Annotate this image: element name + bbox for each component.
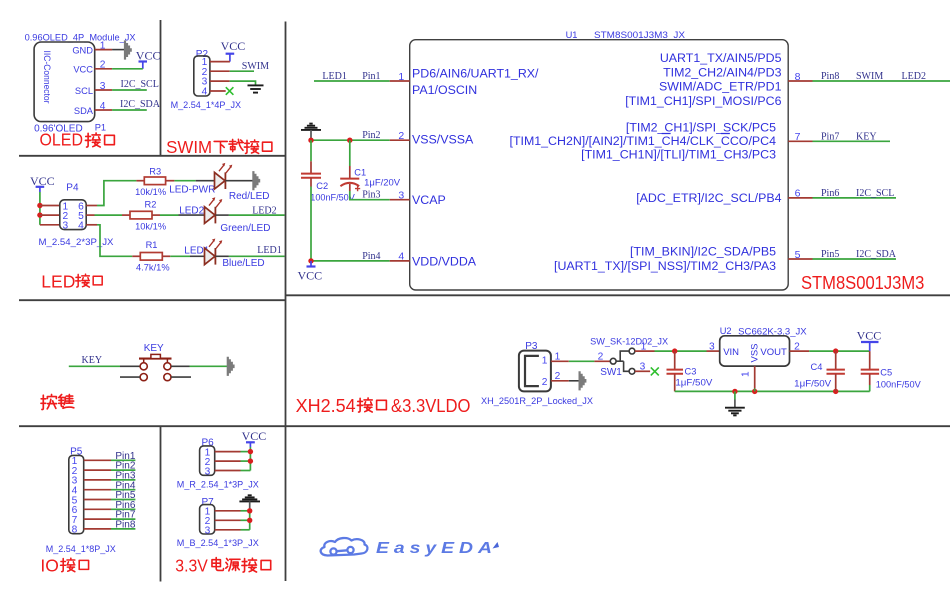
svg-text:Pin1: Pin1 [362,71,380,82]
U1 pin4 wire [311,260,390,262]
P1 pin 4 stub [95,109,112,111]
svg-text:Pin4: Pin4 [362,251,380,262]
svg-text:C4: C4 [811,362,823,372]
svg-text:5: 5 [795,249,801,261]
U1 pin7 stub [788,140,812,142]
svg-text:IO: IO [40,556,58,576]
ground stem below rail [734,391,736,399]
junction dot P4 pin2 [37,212,42,217]
junction dot rail gnd [732,389,737,394]
svg-text:3: 3 [709,342,715,353]
svg-text:3: 3 [62,221,68,232]
wire LED2 to border [229,214,285,216]
wire pin3 to ground [230,81,256,85]
svg-text:Pin8: Pin8 [115,520,135,531]
svg-text:8: 8 [72,525,78,536]
svg-text:STM8S001J3M3: STM8S001J3M3 [801,272,924,293]
svg-text:SWIM: SWIM [166,137,212,157]
wire P3 to SW1 [569,360,595,362]
svg-text:LED2: LED2 [902,71,926,82]
switch SW1 contacts [610,348,635,374]
LED Red/LED symbol [215,163,233,189]
svg-text:STM8S001J3M3_JX: STM8S001J3M3_JX [594,30,685,40]
svg-text:4: 4 [202,87,208,98]
svg-text:1μF/20V: 1μF/20V [364,177,401,187]
ground stem to pin2 wire [310,130,312,140]
svg-text:R1: R1 [146,240,158,250]
ground stem at P7 [249,501,251,510]
svg-text:VCC: VCC [857,329,882,343]
svg-text:I2C_SDA: I2C_SDA [856,249,897,260]
connector P2 body [194,56,210,96]
regulator U2 body [720,336,790,366]
wire KEY [69,365,120,367]
junction dot P7 pin1 [247,508,252,513]
svg-text:1: 1 [641,342,647,353]
capacitor C3 lower lead [674,374,676,392]
VCC bar at P6 [246,441,255,443]
section divider horizontal y=295 right [286,294,950,296]
LED Green/LED symbol [205,197,223,223]
svg-text:KEY: KEY [144,343,164,354]
P4 pin3 stub [40,224,60,226]
svg-text:U1: U1 [566,30,578,40]
svg-text:M_2.54_2*3P_JX: M_2.54_2*3P_JX [39,237,114,247]
P2 pin3 stub [210,80,230,82]
capacitor C1 branch lower [349,184,351,191]
svg-text:C3: C3 [685,367,697,377]
connector P1 body [34,42,95,122]
capacitor C3 upper lead [674,351,676,369]
junction dot C3 top [672,348,677,353]
svg-text:VCC: VCC [221,39,246,53]
svg-text:100nF/50V: 100nF/50V [310,193,355,203]
connector P3 body [519,351,551,392]
capacitor C5 [861,370,879,374]
P7 pin stubs [215,511,241,530]
capacitor C2 branch lower [310,178,312,187]
LED Blue/LED symbol [205,238,223,264]
P4 pin6 stub [86,205,97,207]
section divider vertical x=160 top [160,20,162,156]
section divider vertical x=160 bottom [160,426,162,581]
ground rail [675,390,870,392]
P1 pin 3 stub [95,89,112,91]
U1 pin4 stub [390,260,410,262]
wire pin6 up to R3 [97,181,136,206]
wire to LED2 label [160,214,179,216]
svg-text:SCL: SCL [75,86,93,96]
U1 pin2 stub [390,139,410,141]
capacitor C2 branch upper [310,140,312,161]
switch lower left stub [120,376,140,378]
earth ground at P2 pin3 [248,85,264,92]
svg-text:Pin2: Pin2 [362,130,380,141]
svg-text:2: 2 [542,377,548,388]
U1 pin7 wire [813,140,891,142]
svg-text:C5: C5 [880,368,892,378]
U1 pin6 stub [788,197,812,199]
ground arrow at P1 pin1 [124,40,132,59]
svg-text:10k/1%: 10k/1% [135,187,166,197]
section divider horizontal y=426 [19,425,950,427]
svg-text:SWIM: SWIM [242,61,269,72]
VCC stem at P6 [249,442,251,447]
svg-text:LED: LED [41,272,75,292]
svg-text:4.7k/1%: 4.7k/1% [136,263,170,273]
U1 pin2 wire [311,139,390,141]
R3 right lead [166,180,175,182]
P6 pin numbers [205,447,211,477]
resistor R3 [144,177,165,185]
P5 pin numbers 1-8 [72,456,78,536]
svg-text:M_2.54_1*8P_JX: M_2.54_1*8P_JX [46,544,116,554]
section divider horizontal y=156 [19,155,286,157]
wire to switch [120,365,140,367]
junction dot C4 top [833,348,838,353]
svg-text:VDD/VDDA: VDD/VDDA [412,254,477,268]
C1 plus sign [355,186,360,191]
P7 vertical rail [249,511,251,530]
switch KEY button bar [139,354,172,362]
wire switch to ground [171,365,190,367]
svg-text:VIN: VIN [723,347,739,358]
resistor R1 [140,253,162,261]
svg-text:KEY: KEY [82,355,103,366]
svg-text:M_B_2.54_1*3P_JX: M_B_2.54_1*3P_JX [177,538,259,548]
svg-text:R2: R2 [145,200,157,210]
svg-text:100nF/50V: 100nF/50V [876,380,922,390]
U2 VSS stub [754,366,756,388]
switch lower right stub [171,376,191,378]
svg-text:UART1_TX/AIN5/PD5: UART1_TX/AIN5/PD5 [660,51,782,65]
svg-text:1: 1 [398,71,404,83]
wire to Blue LED [190,255,205,257]
svg-text:VCC: VCC [73,65,93,75]
svg-text:1: 1 [741,371,752,377]
capacitor C4 upper lead [835,351,837,369]
svg-text:SDA: SDA [74,106,94,116]
VCC bar symbol at P1 [139,60,148,62]
P4 pin1 stub [40,205,60,207]
svg-text:VSS: VSS [750,343,761,362]
wire I2C_SDA [112,109,147,111]
net labels Pin1-Pin8 [115,451,135,531]
svg-text:[UART1_TX]/[SPI_NSS]/TIM2_CH3/: [UART1_TX]/[SPI_NSS]/TIM2_CH3/PA3 [554,259,776,273]
P5 pin stubs [84,460,111,529]
VCC bar at LDO out [861,341,879,343]
SW1 pin1 stub [635,350,655,352]
wire VOUT to VCC [809,350,870,352]
EasyEDA logo cloud [321,538,368,556]
svg-text:IIC-Connector: IIC-Connector [42,51,52,104]
svg-text:OLED: OLED [40,129,84,149]
svg-text:4: 4 [398,251,404,263]
P2 pin4 stub [210,90,226,92]
svg-text:2: 2 [555,371,561,382]
svg-text:Pin8: Pin8 [821,71,839,82]
svg-text:6: 6 [795,188,801,200]
U2 VOUT stub [790,350,810,352]
earth ground below rail [725,408,745,416]
section divider vertical x=285 [285,22,287,582]
SW1 pin3 stub [635,370,650,372]
svg-text:Green/LED: Green/LED [220,223,270,234]
svg-text:VCC: VCC [242,429,267,443]
svg-text:&3.3VLDO: &3.3VLDO [391,396,471,416]
junction dot rail VSS [752,389,757,394]
svg-text:SWIM: SWIM [856,71,883,82]
wire LED1 to border [229,255,285,257]
svg-text:SW_SK-12D02_JX: SW_SK-12D02_JX [590,336,668,346]
svg-text:I2C_SDA: I2C_SDA [120,99,161,110]
P1 pin 1 stub [95,49,112,51]
svg-text:P4: P4 [66,183,79,194]
IC U1 body [410,40,789,290]
connector P4 body [60,200,86,230]
svg-text:TIM2_CH2/AIN4/PD3: TIM2_CH2/AIN4/PD3 [663,66,782,80]
capacitor C5 lower lead [869,374,871,385]
svg-text:[TIM_BKIN]/I2C_SDA/PB5: [TIM_BKIN]/I2C_SDA/PB5 [630,245,776,259]
U1 pin3 stub [390,199,410,201]
capacitor C4 lower lead [835,374,837,392]
capacitor C2 [301,174,321,178]
svg-text:[TIM2_CH1]/SPI_SCK/PC5: [TIM2_CH1]/SPI_SCK/PC5 [626,120,776,134]
no-connect X at P2 pin4 [226,87,234,95]
capacitor C1 branch upper [349,140,351,166]
wire to LED1sym [196,180,215,182]
section label AnJian [41,394,57,409]
svg-text:1μF/50V: 1μF/50V [675,377,713,387]
connector P7 body [200,505,215,534]
svg-text:KEY: KEY [856,131,877,142]
wire pin1 to gnd [112,49,124,51]
svg-text:XH_2501R_2P_Locked_JX: XH_2501R_2P_Locked_JX [481,396,593,406]
ground arrow at Red/LED [252,171,260,190]
U1 pin1 stub [390,80,410,82]
junction dot pin2/C1 [347,138,352,143]
svg-text:[ADC_ETR]/I2C_SCL/PB4: [ADC_ETR]/I2C_SCL/PB4 [636,191,781,205]
P4 pin5 stub [86,214,94,216]
junction dot P6 pin1 [248,449,253,454]
section divider horizontal y=300 left [19,299,286,301]
svg-text:VCAP: VCAP [412,193,446,207]
svg-text:P1: P1 [95,123,106,133]
wire pin2 to VCC [112,68,143,70]
svg-text:VSS/VSSA: VSS/VSSA [412,133,474,147]
capacitor C5 upper lead [869,351,871,369]
junction dot P6 pin2 [248,458,253,463]
svg-text:3: 3 [205,525,211,536]
P1 pin 2 stub [95,68,112,70]
wire I2C_SCL [112,89,147,91]
U1 pin8 stub [788,80,812,82]
svg-text:LED1: LED1 [257,245,281,256]
svg-text:[TIM1_CH2N]/[AIN2]/TIM1_CH4/CL: [TIM1_CH2N]/[AIN2]/TIM1_CH4/CLK_CCO/PC4 [510,134,777,148]
svg-text:3: 3 [398,190,404,202]
svg-text:LED2: LED2 [252,205,276,216]
svg-text:M_R_2.54_1*3P_JX: M_R_2.54_1*3P_JX [177,480,259,490]
svg-text:VCC: VCC [298,269,323,283]
no-connect X at SW1 pin3 [651,367,659,375]
svg-text:SC662K-3.3_JX: SC662K-3.3_JX [738,326,807,336]
VCC stem below pin4 [310,261,312,267]
svg-text:3.3V: 3.3V [175,556,208,576]
wire SW1 to VIN [655,350,707,352]
svg-text:LED1: LED1 [322,71,346,82]
VCC stem at P4 [39,187,41,192]
svg-text:1: 1 [542,356,548,367]
svg-text:Pin6: Pin6 [821,188,839,199]
svg-text:3: 3 [640,362,646,373]
junction dot pin4/VCC [308,258,313,263]
P4 pin4 stub [86,224,97,226]
R3 left lead [136,180,144,182]
svg-text:VOUT: VOUT [760,347,787,358]
svg-text:LED-PWR: LED-PWR [169,185,215,196]
svg-text:U2: U2 [720,326,732,336]
wire pin5 to R2 [95,214,123,216]
U1 pin8 wire [813,80,950,82]
wire pin4 down to R1 [97,225,132,256]
svg-text:Pin5: Pin5 [821,249,839,260]
svg-text:[TIM1_CH1]/SPI_MOSI/PC6: [TIM1_CH1]/SPI_MOSI/PC6 [625,94,781,108]
P5 net wires [111,460,135,529]
wire after Blue LED [215,255,229,257]
wire to LED1 label [170,255,190,257]
switch SW1 lever [616,351,629,371]
wire P3 pin2 to ground [569,380,579,382]
capacitor C3 [667,370,684,374]
wire LED-PWR [174,180,195,182]
wire after Green LED [215,214,229,216]
U1 pin6 wire [813,197,897,199]
wire SWIM [230,70,254,72]
svg-text:SWIM/ADC_ETR/PD1: SWIM/ADC_ETR/PD1 [659,80,782,94]
R1 left lead [132,255,140,257]
junction dot rail C4 [833,389,838,394]
U1 pin5 wire [813,258,897,260]
svg-text:C2: C2 [316,181,328,191]
capacitor C1 polarized [340,179,359,187]
VCC stem at P2 [229,54,231,62]
svg-text:GND: GND [72,45,93,55]
svg-text:C1: C1 [354,168,366,178]
switch KEY contacts [140,363,171,381]
connector P6 body [200,446,215,475]
R1 right lead [162,255,170,257]
P6 vertical rail [249,447,251,471]
VCC bar at P4 [36,186,45,188]
P7 wires [241,511,250,530]
svg-text:PD6/AIN6/UART1_RX/: PD6/AIN6/UART1_RX/ [412,66,539,80]
junction dot P7 pin2 [247,518,252,523]
svg-text:Pin7: Pin7 [821,131,839,142]
connector P3 inner bracket [525,356,539,386]
svg-text:1μF/50V: 1μF/50V [794,379,832,389]
R2 right lead [152,214,160,216]
wire to Green LED [179,214,205,216]
svg-text:M_2.54_1*4P_JX: M_2.54_1*4P_JX [171,100,242,110]
U1 pin1 wire [314,80,390,82]
P7 pin numbers [205,506,211,536]
svg-text:Pin3: Pin3 [362,190,380,201]
earth ground above P7 [239,495,260,501]
P4 pin2 stub [40,214,60,216]
svg-text:EasyEDA: EasyEDA [376,540,497,557]
junction dot pin2/C2 [308,138,313,143]
ground arrow at KEY [227,357,235,376]
SW1 pin2 stub [594,360,610,362]
U1 pin5 stub [788,258,812,260]
svg-text:XH2.54: XH2.54 [296,396,356,416]
svg-text:10k/1%: 10k/1% [135,221,166,231]
svg-text:7: 7 [795,131,801,143]
VCC bar below pin4 [307,265,316,267]
resistor R2 [130,211,152,219]
svg-text:R3: R3 [149,166,161,176]
svg-text:Blue/LED: Blue/LED [222,258,264,269]
svg-text:4: 4 [78,221,84,232]
VCC stem [142,62,144,69]
ground arrow at P3 pin2 [579,371,587,390]
wire VCC rail to P4 pins [39,192,41,225]
svg-text:8: 8 [795,71,801,83]
svg-text:0.96OLED_4P_Module_JX: 0.96OLED_4P_Module_JX [25,33,136,43]
svg-text:PA1/OSCIN: PA1/OSCIN [412,83,477,97]
P2 pin2 stub [210,70,230,72]
R2 left lead [122,214,130,216]
svg-text:2: 2 [794,341,800,352]
svg-text:3: 3 [205,466,211,477]
earth ground above pin2 [301,124,321,130]
svg-text:I2C_SCL: I2C_SCL [856,188,894,199]
P6 wires [241,452,251,471]
P3 pin1 stub [551,360,569,362]
svg-text:1: 1 [555,351,561,362]
P3 pin2 stub [551,380,569,382]
VCC bar at P2 [226,53,235,55]
svg-text:SW1: SW1 [600,367,622,378]
junction dot P4 pin1 [37,203,42,208]
VCC stem at LDO out [869,342,871,351]
svg-text:I2C_SCL: I2C_SCL [121,79,159,90]
P2 pin1 stub [210,61,230,63]
wire LED to ground [225,180,252,182]
connector P5 body [69,455,84,533]
U2 VIN stub [707,350,720,352]
svg-text:Red/LED: Red/LED [229,191,270,202]
P6 pin stubs [215,452,241,471]
svg-text:[TIM1_CH1N]/[TLI]/TIM1_CH3/PC3: [TIM1_CH1N]/[TLI]/TIM1_CH3/PC3 [581,147,776,161]
svg-text:2: 2 [598,351,604,362]
capacitor C4 [827,370,845,374]
svg-text:2: 2 [398,130,404,142]
